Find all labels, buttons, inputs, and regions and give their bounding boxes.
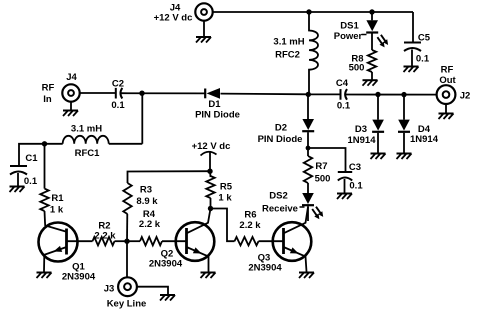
svg-text:1N914: 1N914 [348,135,377,146]
label 3.1 mH (RFC1) [71,124,102,135]
label DS2 [269,191,287,202]
label Q3 [258,253,271,264]
node D4 top [401,92,406,97]
svg-text:0.1: 0.1 [349,181,363,192]
LED DS1 [366,12,388,50]
label R5 [220,182,233,193]
svg-text:500: 500 [349,63,365,74]
svg-text:2.2 k: 2.2 k [239,220,261,231]
svg-text:DS1: DS1 [340,21,359,32]
label D1 [208,99,221,110]
svg-text:J2: J2 [460,91,471,102]
resistor R8 [368,50,376,80]
ground below Q1 emitter [37,273,52,279]
label C5 [418,33,431,44]
ground below Q3 emitter [299,273,314,279]
node D3 top [375,92,380,97]
label DS1 [340,21,359,32]
label 2N3904 (Q1) [62,272,96,283]
label C4 [336,78,349,89]
svg-text:2.2 k: 2.2 k [139,219,161,230]
label PIN Diode (D1) [195,110,240,121]
wire node to C3 [308,148,346,171]
svg-text:2N3904: 2N3904 [149,259,183,270]
label 8.9 k (R3) [136,196,158,207]
capacitor C3 [338,172,352,194]
label J4 (RF In) [66,72,77,83]
label Q1 [72,262,85,273]
svg-text:R1: R1 [51,193,64,204]
wire node to R6 [211,209,235,242]
ground below D3 [371,154,386,160]
node top of DS1 [369,9,374,14]
label PIN Diode (D2) [258,134,303,145]
power tap +12 V dc (center) [201,152,217,171]
transistor Q3 2N3904 [273,207,312,272]
label C2 [112,79,124,90]
label Q2 [161,249,174,260]
label 1 k (R5) [218,193,232,204]
label 0.1 (C2) [111,100,125,111]
connector J2 RF Out [437,85,456,104]
label 2N3904 (Q3) [248,263,282,274]
label RFC2 [275,50,300,61]
node Q2 collector / R6 [208,206,213,211]
wire +12V rail to R3 [128,171,211,183]
ground below C1 [10,187,25,193]
label C1 [25,153,38,164]
label C3 [349,162,361,173]
label 1N914 (D4) [410,134,439,145]
diode D4 1N914 [398,95,410,154]
svg-text:2.2 k: 2.2 k [94,231,116,242]
resistor R1 [40,144,48,223]
resistor R6 [235,237,284,245]
svg-text:C5: C5 [418,33,431,44]
svg-text:2N3904: 2N3904 [248,263,282,274]
svg-text:D1: D1 [208,99,221,110]
label +12 V dc (top) [154,13,193,24]
label RFC1 [75,148,101,159]
resistor R2 [93,237,128,245]
node C2/RFC1 junction [139,91,144,96]
label R6 [244,210,256,221]
svg-text:0.1: 0.1 [111,100,125,111]
svg-text:D2: D2 [275,123,287,134]
svg-text:J3: J3 [104,284,115,295]
svg-text:1 k: 1 k [218,193,232,204]
ground below Q2 emitter [201,273,216,279]
wire RF In to C2 [80,92,116,94]
label In [43,94,52,105]
svg-text:1 k: 1 k [50,205,64,216]
label R3 [140,185,152,196]
label 0.1 (C4) [337,101,351,112]
diode D2 PIN [302,94,314,148]
diode D1 PIN (pointing left) [205,88,220,99]
svg-text:RFC1: RFC1 [75,148,101,159]
label J4 (top) [170,3,181,14]
svg-text:C2: C2 [112,79,124,90]
svg-text:R7: R7 [315,161,327,172]
node top of RFC2 [306,9,311,14]
label RF (out) [441,65,454,76]
label 3.1 mH (RFC2) [273,37,304,48]
svg-text:0.1: 0.1 [24,176,38,187]
wire RF In to ground [70,102,72,111]
svg-text:2N3904: 2N3904 [62,272,96,283]
wire RFC1 left lead [19,144,63,166]
resistor R5 [206,171,214,208]
label D4 [418,124,431,135]
svg-text:Power: Power [334,31,363,42]
wire J3 to ground [137,287,168,295]
ground below C5 [404,67,419,73]
label D3 [355,124,367,135]
label 1N914 (D3) [348,135,377,146]
capacitor C2 [116,88,123,99]
capacitor C5 [404,12,421,67]
svg-text:Key Line: Key Line [107,299,147,310]
svg-text:3.1 mH: 3.1 mH [71,124,102,135]
wire RFC1 right lead [109,143,143,145]
svg-text:Receive: Receive [262,204,298,215]
label 0.1 (C5) [416,54,430,65]
node R5 top [207,169,212,174]
label R8 [351,53,363,64]
svg-text:D3: D3 [355,124,367,135]
svg-text:500: 500 [315,174,331,185]
node key-line junction [124,239,129,244]
resistor R7 [304,148,312,193]
diode D3 1N914 [372,95,384,154]
svg-text:+12 V dc: +12 V dc [154,13,193,24]
resistor R4 [127,237,187,245]
node R1 top [42,141,47,146]
label R7 [315,161,327,172]
node D2 bottom / R7 / C3 [306,146,311,151]
svg-text:3.1 mH: 3.1 mH [273,37,304,48]
wire node to C4 [308,93,340,95]
ground below J2 [439,114,454,120]
svg-text:1N914: 1N914 [410,134,439,145]
ground below R8 [363,80,378,86]
svg-text:R5: R5 [220,182,233,193]
ground below C3 [337,194,352,200]
label 2.2 k (R6) [239,220,261,231]
svg-text:8.9 k: 8.9 k [136,196,158,207]
svg-text:R6: R6 [244,210,256,221]
label Key Line [107,299,147,310]
svg-text:RF: RF [42,83,55,94]
svg-text:RF: RF [441,65,454,76]
label D2 [275,123,287,134]
svg-text:+12 V dc: +12 V dc [192,141,231,152]
svg-text:0.1: 0.1 [337,101,351,112]
svg-text:C3: C3 [349,162,361,173]
inductor RFC1 [63,136,109,144]
inductor RFC2 [309,12,318,94]
label Out [439,75,456,86]
transistor Q1 2N3904 [39,223,93,272]
label Power [334,31,367,42]
svg-text:C4: C4 [336,78,349,89]
wire D1 to D2 node [221,93,309,96]
label 1 k (R1) [50,205,64,216]
ground below J4 [196,37,211,43]
label 2.2 k (R4) [139,219,161,230]
connector J3 Key Line [118,277,137,296]
capacitor C1 [10,166,27,187]
connector J4 +12V input [195,3,212,20]
svg-text:PIN Diode: PIN Diode [258,134,303,145]
label RF (in) [42,83,55,94]
svg-text:DS2: DS2 [269,191,287,202]
label 2N3904 (Q2) [149,259,183,270]
label 0.1 (C1) [24,176,38,187]
wire C4 to J2 [346,94,437,96]
capacitor C4 [341,89,348,100]
transistor Q2 2N3904 [176,209,215,272]
label 500 (R7) [315,174,331,185]
label J3 [104,284,115,295]
ground below RF In [63,111,78,117]
node D2/RFC2 junction [306,92,311,97]
LED DS2 [302,193,323,221]
svg-text:0.1: 0.1 [416,54,430,65]
ground below D4 [397,154,412,160]
svg-text:J4: J4 [66,72,77,83]
svg-text:Out: Out [439,75,456,86]
connector J4 RF In [62,84,79,101]
wire C2 to D1 [121,92,205,94]
label +12 V dc (center) [192,141,231,152]
wire junction to J3 [126,241,128,277]
label 0.1 (C3) [349,181,363,192]
wire junction down to RFC1 [141,93,143,144]
svg-text:PIN Diode: PIN Diode [195,110,240,121]
wire top +12V rail [213,11,413,13]
svg-text:R3: R3 [140,185,152,196]
svg-text:In: In [43,94,52,105]
label 500 (R8) [349,63,365,74]
label J2 [460,91,471,102]
label R2 [98,221,110,232]
wire J4 to ground [203,21,205,37]
label R1 [51,193,64,204]
svg-text:RFC2: RFC2 [275,50,300,61]
ground right of J3 [160,295,175,301]
svg-text:C1: C1 [25,153,38,164]
resistor R3 [123,183,131,241]
label R4 [143,209,156,220]
label 2.2 k (R2) [94,231,116,242]
label Receive [262,204,304,215]
wire J2 to ground [445,104,447,114]
